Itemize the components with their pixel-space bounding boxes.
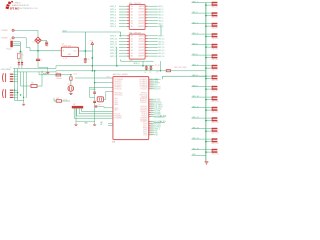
svg-text:ISP: ISP <box>73 104 76 106</box>
svg-text:IC3: IC3 <box>112 142 115 144</box>
svg-text:D9_PB1: D9_PB1 <box>155 110 161 112</box>
svg-text:LED_R3: LED_R3 <box>212 28 218 30</box>
svg-text:LED_R13: LED_R13 <box>212 133 219 135</box>
svg-text:RESET: RESET <box>155 83 160 85</box>
svg-text:LED_5: LED_5 <box>192 43 198 45</box>
svg-text:JP5_M: JP5_M <box>155 65 161 67</box>
svg-text:GPIO_4: GPIO_4 <box>110 15 116 17</box>
svg-text:C7: C7 <box>149 72 151 74</box>
svg-text:GPIO_13: GPIO_13 <box>110 47 117 49</box>
svg-text:16MHz: 16MHz <box>90 89 96 91</box>
svg-text:LED_R1: LED_R1 <box>212 7 218 9</box>
svg-text:QG/SR6: QG/SR6 <box>138 23 144 25</box>
svg-text:LED_12: LED_12 <box>192 117 199 119</box>
svg-text:QE/SR4: QE/SR4 <box>138 47 144 49</box>
svg-text:D8_PB0: D8_PB0 <box>155 112 161 114</box>
svg-text:C9: C9 <box>99 104 101 106</box>
svg-text:LED_16: LED_16 <box>158 56 164 58</box>
svg-text:GND_2: GND_2 <box>155 129 160 131</box>
svg-text:PD0(RXD): PD0(RXD) <box>140 106 147 108</box>
svg-text:SPARKFUN ELECTR: SPARKFUN ELECTR <box>12 4 30 7</box>
svg-text:LED_13: LED_13 <box>192 127 199 129</box>
svg-text:D10_PB2: D10_PB2 <box>155 108 162 110</box>
svg-text:LED_R15: LED_R15 <box>212 154 219 156</box>
svg-text:LED_10: LED_10 <box>192 96 199 98</box>
svg-text:VCC2: VCC2 <box>143 135 147 137</box>
svg-text:LED_R5: LED_R5 <box>212 49 218 51</box>
svg-text:GPIO_16: GPIO_16 <box>110 56 117 58</box>
svg-text:LED_R6: LED_R6 <box>212 59 218 61</box>
svg-text:ARDUINO_MINI05: ARDUINO_MINI05 <box>113 73 128 76</box>
svg-text:GPIO_1: GPIO_1 <box>110 6 116 8</box>
svg-text:IC1: IC1 <box>129 3 132 5</box>
svg-text:PB3(MOSI): PB3(MOSI) <box>140 98 148 100</box>
svg-text:QE/SR4: QE/SR4 <box>138 17 144 19</box>
svg-text:R22: R22 <box>56 98 59 100</box>
svg-text:GPIO_6: GPIO_6 <box>110 20 116 22</box>
svg-text:PB5(SCK): PB5(SCK) <box>141 102 148 104</box>
svg-text:LED_R7: LED_R7 <box>212 70 218 72</box>
svg-text:GPIO_8: GPIO_8 <box>110 26 116 28</box>
svg-text:GPIO_14: GPIO_14 <box>110 50 117 52</box>
svg-text:GPIO_7: GPIO_7 <box>110 23 116 25</box>
svg-text:GPIO_2: GPIO_2 <box>110 9 116 11</box>
svg-text:D11_MOSI: D11_MOSI <box>155 107 163 109</box>
svg-text:IC2: IC2 <box>129 32 132 34</box>
svg-text:LED_11: LED_11 <box>192 106 198 108</box>
svg-text:LED_4: LED_4 <box>192 33 198 35</box>
svg-text:LED_13: LED_13 <box>158 47 164 49</box>
svg-text:F1: F1 <box>56 72 58 74</box>
svg-text:LED_6: LED_6 <box>192 54 198 56</box>
svg-text:V+: V+ <box>10 67 12 69</box>
svg-text:LED_R2: LED_R2 <box>212 17 218 19</box>
svg-text:IC2P: IC2P <box>130 60 133 62</box>
svg-text:QH/SR7: QH/SR7 <box>138 56 144 58</box>
svg-text:QD/SR3: QD/SR3 <box>138 15 144 17</box>
svg-text:PB4(MISO): PB4(MISO) <box>140 100 148 102</box>
svg-text:PB0(ICP): PB0(ICP) <box>141 92 148 94</box>
svg-text:QD/SR3: QD/SR3 <box>138 44 144 46</box>
svg-text:LED_R9: LED_R9 <box>212 91 218 93</box>
svg-text:QG/SR6: QG/SR6 <box>138 53 144 55</box>
svg-text:QC/SR2: QC/SR2 <box>138 41 144 43</box>
svg-text:LED_10: LED_10 <box>158 38 164 40</box>
svg-text:D4_PD4: D4_PD4 <box>155 123 161 125</box>
svg-text:GND2: GND2 <box>143 133 147 135</box>
svg-text:PD2(INT0): PD2(INT0) <box>115 85 122 87</box>
svg-text:GPIO_3: GPIO_3 <box>110 12 116 14</box>
svg-text:PD3(INT1): PD3(INT1) <box>115 87 122 89</box>
svg-text:GND: GND <box>115 98 118 100</box>
svg-text:QB/SR1: QB/SR1 <box>138 38 144 40</box>
svg-text:LED_1: LED_1 <box>192 1 198 3</box>
svg-text:QF/SR5: QF/SR5 <box>138 20 144 22</box>
svg-text:V_REG_LDO: V_REG_LDO <box>62 45 72 47</box>
svg-text:LED_R10: LED_R10 <box>212 101 219 103</box>
svg-text:GPIO_5: GPIO_5 <box>110 18 116 20</box>
svg-text:LED_R14: LED_R14 <box>212 143 219 145</box>
svg-text:LED_9: LED_9 <box>192 85 198 87</box>
svg-text:PD5(T1): PD5(T1) <box>142 115 148 117</box>
svg-text:QH/SR7: QH/SR7 <box>138 26 144 28</box>
svg-text:D12_MISO: D12_MISO <box>155 105 164 107</box>
svg-text:PC6(RST): PC6(RST) <box>141 121 148 123</box>
svg-text:PD4(XCK): PD4(XCK) <box>115 89 122 91</box>
svg-text:D1: D1 <box>33 41 35 43</box>
svg-text:QC/SR2: QC/SR2 <box>138 12 144 14</box>
svg-text:PD1(TXD): PD1(TXD) <box>115 83 122 85</box>
svg-text:© SFE 05: © SFE 05 <box>13 1 20 4</box>
svg-text:POWER: POWER <box>1 30 8 32</box>
svg-text:QB/SR1: QB/SR1 <box>138 9 144 11</box>
svg-text:PC6(RESET): PC6(RESET) <box>115 79 124 81</box>
svg-text:LED_2: LED_2 <box>158 9 163 11</box>
svg-text:GPIO_11: GPIO_11 <box>110 41 117 43</box>
svg-text:RST: RST <box>107 77 110 79</box>
svg-text:LED_R4: LED_R4 <box>212 38 218 40</box>
svg-text:PD3(INT1): PD3(INT1) <box>140 112 147 114</box>
svg-text:VCC: VCC <box>115 100 118 102</box>
svg-text:GPIO_10: GPIO_10 <box>110 38 117 40</box>
svg-text:GPIO_0: GPIO_0 <box>133 63 139 65</box>
svg-text:74HC595: 74HC595 <box>134 32 142 34</box>
svg-text:POWER: POWER <box>1 38 8 40</box>
svg-text:LED_12: LED_12 <box>158 44 164 46</box>
svg-text:JP4: JP4 <box>156 72 159 74</box>
svg-text:C4: C4 <box>40 59 42 61</box>
svg-text:GPIO_SET: GPIO_SET <box>145 69 153 71</box>
svg-text:GPIO_12: GPIO_12 <box>110 44 117 46</box>
svg-text:LED_8: LED_8 <box>192 75 198 77</box>
svg-text:LED_7: LED_7 <box>192 64 198 66</box>
svg-text:JP_M: JP_M <box>63 99 68 101</box>
svg-text:QF/SR5: QF/SR5 <box>138 50 144 52</box>
svg-text:PD2(INT0): PD2(INT0) <box>140 110 147 112</box>
svg-text:LED_14: LED_14 <box>158 50 164 52</box>
svg-text:PD5(T1): PD5(T1) <box>115 114 121 116</box>
svg-text:ELECTRONICS LLC 05: ELECTRONICS LLC 05 <box>18 8 37 10</box>
svg-text:LED_4: LED_4 <box>158 15 163 17</box>
svg-text:LED_2: LED_2 <box>192 12 198 14</box>
svg-text:74HC595: 74HC595 <box>134 3 142 5</box>
svg-text:PD1(TXD): PD1(TXD) <box>141 108 148 110</box>
svg-text:LED_1: LED_1 <box>158 6 163 8</box>
svg-text:GPIO_9: GPIO_9 <box>110 36 116 38</box>
svg-text:LED_R12: LED_R12 <box>212 122 219 124</box>
svg-text:J2: J2 <box>10 39 12 41</box>
svg-text:LED_11: LED_11 <box>158 41 164 43</box>
svg-text:D3_PD3: D3_PD3 <box>155 125 161 127</box>
svg-text:PB2(SS): PB2(SS) <box>142 96 148 98</box>
svg-text:LED_3: LED_3 <box>192 22 198 24</box>
svg-text:LED_R11: LED_R11 <box>212 112 219 114</box>
svg-text:PD4(T0): PD4(T0) <box>142 114 148 116</box>
svg-text:LED_6: LED_6 <box>158 20 163 22</box>
svg-text:V_33: V_33 <box>63 58 67 60</box>
svg-text:LED_5: LED_5 <box>158 18 163 20</box>
svg-text:C5: C5 <box>88 59 90 61</box>
svg-text:LED_3: LED_3 <box>158 12 163 14</box>
svg-text:IC4: IC4 <box>62 44 65 46</box>
svg-text:GPIO_15: GPIO_15 <box>110 53 117 55</box>
svg-text:FB1: FB1 <box>31 83 34 85</box>
svg-text:C6: C6 <box>144 72 146 74</box>
svg-text:LED_15: LED_15 <box>158 53 164 55</box>
svg-text:PD0(RXD): PD0(RXD) <box>115 81 122 83</box>
svg-text:D13_SCK: D13_SCK <box>155 103 163 105</box>
svg-text:LED_15: LED_15 <box>192 148 199 150</box>
svg-text:PC5(SCL): PC5(SCL) <box>141 89 148 91</box>
svg-text:Power: Power <box>7 48 12 50</box>
svg-text:LED_14: LED_14 <box>192 138 199 140</box>
svg-text:LED_R8: LED_R8 <box>212 80 218 82</box>
svg-text:OUT: OUT <box>73 51 76 53</box>
svg-text:JMP_LED_PWR: JMP_LED_PWR <box>174 67 187 69</box>
svg-text:D2_PD2: D2_PD2 <box>155 127 161 129</box>
svg-text:Q2: Q2 <box>67 84 69 86</box>
